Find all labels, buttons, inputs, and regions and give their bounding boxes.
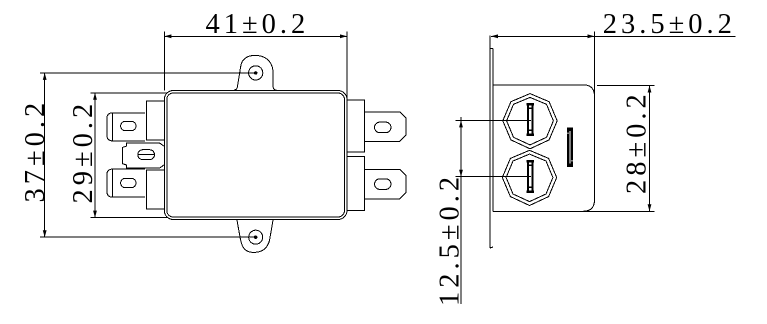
svg-text:28±0.2: 28±0.2: [622, 90, 653, 194]
svg-text:12.5±0.2: 12.5±0.2: [435, 173, 466, 306]
svg-text:29±0.2: 29±0.2: [68, 100, 99, 204]
svg-text:23.5±0.2: 23.5±0.2: [603, 9, 736, 40]
svg-text:41±0.2: 41±0.2: [206, 9, 310, 40]
svg-text:37±0.2: 37±0.2: [20, 99, 51, 203]
